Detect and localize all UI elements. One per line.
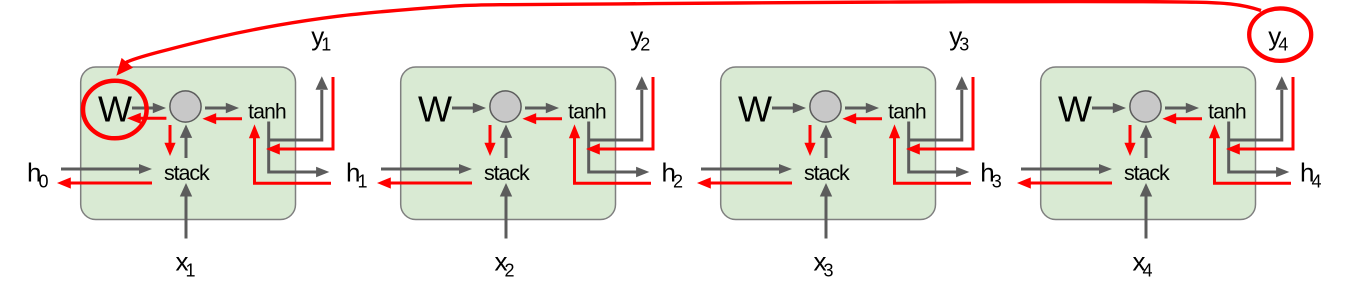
svg-text:stack: stack xyxy=(484,161,530,185)
svg-text:tanh: tanh xyxy=(568,101,606,124)
red backprop path h1 into tanh cell 1 xyxy=(255,136,332,183)
svg-text:y2: y2 xyxy=(630,21,650,55)
forward arrow h0 into stack cell 1 xyxy=(61,168,121,171)
svg-text:x1: x1 xyxy=(176,246,196,280)
svg-text:y1: y1 xyxy=(311,21,331,55)
forward arrow multiply to tanh cell 3 xyxy=(845,107,868,110)
svg-text:W: W xyxy=(738,89,772,130)
multiply node (gray circle) cell 1 xyxy=(170,91,201,122)
svg-text:h1: h1 xyxy=(346,157,367,191)
RNN cell 1 (green rounded box) xyxy=(81,67,296,220)
svg-text:tanh: tanh xyxy=(248,101,286,124)
RNN cell 4 (green rounded box) xyxy=(1041,67,1256,220)
forward arrow W to multiply node cell 3 xyxy=(772,107,795,110)
red backprop path h2 into tanh cell 2 xyxy=(575,136,652,183)
red backprop arrow tanh to multiply cell 2 xyxy=(533,117,562,120)
RNN cell 3 (green rounded box) xyxy=(721,67,936,220)
red backprop path y1 into tanh cell 1 xyxy=(277,77,333,149)
big red backprop curve from y4 circle to W in cell 1 xyxy=(124,2,1261,65)
red backprop path h3 into tanh cell 3 xyxy=(895,136,972,183)
forward arrow h1 into stack cell 2 xyxy=(381,168,441,171)
red backprop path y3 into tanh cell 3 xyxy=(917,77,973,149)
multiply node (gray circle) cell 4 xyxy=(1130,91,1161,122)
red backprop path y2 into tanh cell 2 xyxy=(597,77,653,149)
forward arrow x4 into stack cell 4 xyxy=(1145,194,1148,239)
svg-text:tanh: tanh xyxy=(1208,101,1246,124)
svg-text:stack: stack xyxy=(804,161,850,185)
arrowhead of big red backprop curve xyxy=(116,58,133,76)
svg-text:y4: y4 xyxy=(1268,21,1288,55)
red backprop arrow stack to h2 cell 3 xyxy=(708,182,792,185)
red backprop arrow multiply to W cell 1 xyxy=(138,117,166,120)
forward arrow x3 into stack cell 3 xyxy=(825,194,828,239)
svg-text:stack: stack xyxy=(164,161,210,185)
forward arrow stack to multiply cell 1 xyxy=(185,135,188,158)
forward arrow h3 into stack cell 4 xyxy=(1021,168,1081,171)
red ellipse highlighting W in cell 1 xyxy=(83,81,147,139)
forward path tanh to h3 output elbow cell 3 xyxy=(909,122,960,173)
multiply node (gray circle) cell 2 xyxy=(490,91,521,122)
forward arrow W to multiply node cell 4 xyxy=(1092,107,1115,110)
forward branch tanh to y3 output elbow cell 3 xyxy=(909,90,962,140)
red backprop arrow tanh to multiply cell 4 xyxy=(1173,117,1202,120)
forward branch tanh to y4 output elbow cell 4 xyxy=(1229,90,1282,140)
forward path tanh to h4 output elbow cell 4 xyxy=(1229,122,1280,173)
red backprop arrow tanh to multiply cell 1 xyxy=(213,117,242,120)
svg-text:tanh: tanh xyxy=(888,101,926,124)
forward arrow W to multiply node cell 1 xyxy=(132,107,155,110)
svg-text:h4: h4 xyxy=(1300,157,1321,191)
svg-text:h2: h2 xyxy=(662,157,683,191)
forward arrow x2 into stack cell 2 xyxy=(505,194,508,239)
red backprop arrow down to stack cell 1 xyxy=(169,125,172,145)
forward path tanh to h2 output elbow cell 2 xyxy=(589,122,640,173)
svg-text:x4: x4 xyxy=(1133,246,1153,280)
forward arrow multiply to tanh cell 2 xyxy=(525,107,548,110)
RNN cell 2 (green rounded box) xyxy=(401,67,616,220)
forward arrow h2 into stack cell 3 xyxy=(701,168,761,171)
svg-text:W: W xyxy=(418,89,452,130)
red circle highlighting y4 label xyxy=(1249,8,1311,60)
forward path tanh to h1 output elbow cell 1 xyxy=(269,122,320,173)
red backprop arrow down to stack cell 3 xyxy=(809,125,812,145)
svg-text:h3: h3 xyxy=(980,157,1001,191)
forward arrow multiply to tanh cell 4 xyxy=(1165,107,1188,110)
red backprop arrow down to stack cell 4 xyxy=(1129,125,1132,145)
svg-text:W: W xyxy=(1058,89,1092,130)
red backprop arrow stack to h0 cell 1 xyxy=(68,182,152,185)
svg-text:x3: x3 xyxy=(814,246,834,280)
forward branch tanh to y1 output elbow cell 1 xyxy=(269,90,322,140)
forward arrow x1 into stack cell 1 xyxy=(185,194,188,239)
svg-text:h0: h0 xyxy=(27,157,48,191)
svg-text:x2: x2 xyxy=(495,246,515,280)
svg-text:stack: stack xyxy=(1124,161,1170,185)
forward arrow W to multiply node cell 2 xyxy=(452,107,475,110)
red backprop arrow tanh to multiply cell 3 xyxy=(853,117,882,120)
red backprop arrow down to stack cell 2 xyxy=(489,125,492,145)
svg-text:W: W xyxy=(98,89,132,130)
forward arrow stack to multiply cell 4 xyxy=(1145,135,1148,158)
forward arrow stack to multiply cell 2 xyxy=(505,135,508,158)
red backprop arrow stack to h1 cell 2 xyxy=(388,182,472,185)
multiply node (gray circle) cell 3 xyxy=(810,91,841,122)
forward arrow multiply to tanh cell 1 xyxy=(205,107,228,110)
forward branch tanh to y2 output elbow cell 2 xyxy=(589,90,642,140)
red backprop path h4 into tanh cell 4 xyxy=(1215,136,1292,183)
forward arrow stack to multiply cell 3 xyxy=(825,135,828,158)
svg-text:y3: y3 xyxy=(949,21,969,55)
red backprop arrow stack to h3 cell 4 xyxy=(1028,182,1112,185)
red backprop path y4 into tanh cell 4 xyxy=(1237,77,1293,149)
